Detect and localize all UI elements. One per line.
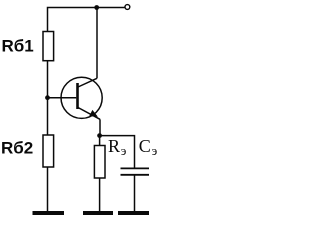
terminal (open circle, supply input)	[125, 5, 130, 10]
ground (left, below Rб2)	[33, 211, 65, 215]
resistor Rб1	[43, 32, 54, 61]
node (junction dot at emitter)	[97, 133, 102, 138]
capacitor Cэ	[121, 168, 150, 174]
ground (middle, below Rэ)	[83, 211, 113, 215]
wire from Rб1 bottom through base node to Rб2 top	[47, 61, 49, 135]
resistor Rэ	[94, 146, 105, 179]
wire Rэ bottom to ground	[99, 178, 101, 212]
node (junction dot at top rail / collector)	[94, 5, 99, 10]
wire top rail from junction to output terminal	[97, 7, 125, 9]
wire top rail from left corner to collector junction	[48, 8, 97, 32]
ground (right, below Cэ)	[118, 211, 149, 215]
svg-text:Rб2: Rб2	[1, 139, 33, 158]
svg-text:э: э	[121, 143, 127, 158]
svg-text:C: C	[139, 136, 151, 156]
svg-text:R: R	[108, 136, 120, 156]
wire emitter node to capacitor branch	[100, 136, 135, 168]
wire Rб2 bottom to ground	[47, 167, 49, 212]
wire Cэ bottom to ground	[134, 175, 136, 212]
svg-text:Rб1: Rб1	[2, 37, 34, 56]
resistor Rб2	[43, 135, 54, 167]
wire base connection	[48, 97, 77, 99]
wire emitter node to Rэ	[99, 136, 101, 146]
svg-text:э: э	[152, 143, 158, 158]
wire emitter down to node	[99, 119, 101, 135]
node (junction dot at voltage divider / base)	[45, 95, 50, 100]
transistor VT1 (NPN)	[61, 77, 102, 119]
wire collector to top rail	[96, 8, 98, 79]
